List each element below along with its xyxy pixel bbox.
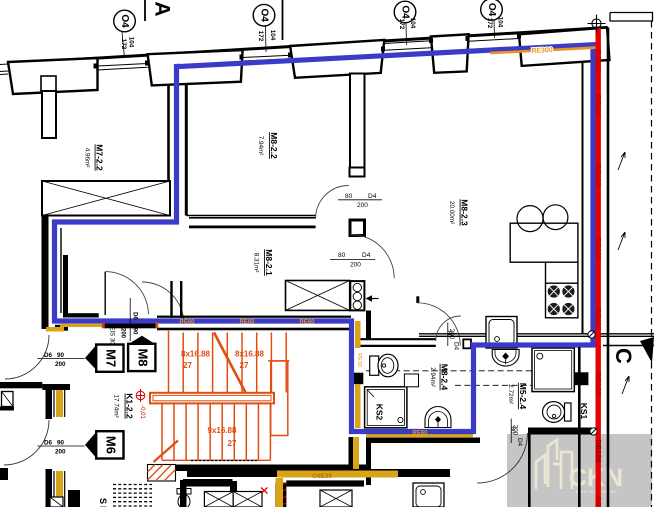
svg-text:172: 172 <box>120 39 127 50</box>
door arc hall to corridor <box>142 282 184 324</box>
svg-text:RE120: RE120 <box>594 238 603 261</box>
svg-text:200: 200 <box>511 425 518 436</box>
bath M8-2.4 north wall <box>355 339 436 346</box>
svg-text:4.96m²: 4.96m² <box>84 148 91 168</box>
bottom wall vertical 3 <box>366 443 371 485</box>
stairs landing bar <box>150 393 274 404</box>
kitchen sink <box>486 317 517 349</box>
svg-text:O4: O4 <box>399 5 410 19</box>
svg-text:200: 200 <box>357 202 368 209</box>
arrow at duct <box>366 295 379 302</box>
left edge wall stub 1 <box>0 407 14 411</box>
svg-text:200: 200 <box>350 262 361 269</box>
apartment marker M7 <box>37 345 123 372</box>
svg-text:172: 172 <box>486 18 493 29</box>
svg-text:KS2: KS2 <box>375 404 385 421</box>
svg-text:RE300: RE300 <box>531 47 553 55</box>
orange RE300 line top <box>490 48 596 54</box>
facade pier P3 <box>290 40 384 78</box>
kitchen counter upper <box>510 223 578 262</box>
plumbing dashed line 1 <box>366 370 532 372</box>
svg-text:27: 27 <box>183 361 192 370</box>
svg-text:K1-2.2: K1-2.2 <box>125 393 135 419</box>
grid bubble O4 no4 <box>481 0 504 38</box>
pier right of KS1 (black) <box>574 372 588 385</box>
bottom sink <box>413 483 444 507</box>
svg-text:RE120: RE120 <box>594 308 603 331</box>
svg-text:M8: M8 <box>135 348 150 366</box>
svg-text:D4: D4 <box>368 193 377 200</box>
crosshair <box>588 15 606 33</box>
facade pier P5 <box>519 28 610 66</box>
boundary dashed line <box>651 21 653 507</box>
kitchen south wall lines <box>419 334 654 337</box>
X-box hall shaft <box>286 281 350 311</box>
kitchen west wall piece <box>366 311 371 340</box>
svg-text:RE60: RE60 <box>299 320 315 326</box>
svg-text:D4: D4 <box>516 438 523 447</box>
sink M5-2.4 <box>492 350 519 367</box>
yellow strip corridor <box>60 324 102 327</box>
svg-text:104: 104 <box>128 37 135 48</box>
bath bottom wall (M8-2.4 / south) <box>366 438 480 444</box>
chimney kitchen wall <box>350 74 365 168</box>
chimney kitchen end cap <box>350 168 365 177</box>
stairs upper diagonal <box>214 333 246 393</box>
shower KS1 <box>532 348 574 392</box>
svg-text:104: 104 <box>269 30 276 41</box>
red RE120 riser line <box>596 28 601 507</box>
svg-text:90: 90 <box>57 440 65 447</box>
grid bubble O4 no1 <box>114 10 136 58</box>
left edge wall stub 2 <box>0 468 8 480</box>
corridor door arc M7 <box>106 272 149 315</box>
svg-text:M7: M7 <box>103 349 118 367</box>
M8 dim leader <box>129 298 131 341</box>
svg-text:20.00m²: 20.00m² <box>448 201 455 224</box>
svg-text:RE120: RE120 <box>594 50 603 73</box>
yellow strip west wall upper <box>56 387 63 417</box>
svg-text:M8-2.3: M8-2.3 <box>460 199 470 226</box>
svg-text:RE120: RE120 <box>594 440 603 463</box>
svg-text:80: 80 <box>338 252 346 259</box>
bottom rooms wall vertical 1 <box>180 480 187 507</box>
door D4 arc hall-kitchen <box>350 235 394 279</box>
svg-text:RE120: RE120 <box>594 95 603 118</box>
toilet M5-2.4 tank <box>565 403 572 421</box>
svg-text:200: 200 <box>55 449 66 456</box>
kitchen counter lower <box>546 262 578 283</box>
svg-text:M7-2.2: M7-2.2 <box>95 144 105 171</box>
svg-text:8x16.88: 8x16.88 <box>181 350 210 359</box>
facade outer wall (sloped) <box>8 28 607 64</box>
stair bottom wall <box>150 465 366 472</box>
red RE120 labels <box>594 50 603 507</box>
svg-text:RE120: RE120 <box>594 373 603 396</box>
label M8-2.1 <box>264 249 274 276</box>
pier P1 niche <box>41 76 56 91</box>
svg-text:200: 200 <box>119 328 125 339</box>
facade pier P4 <box>431 34 469 73</box>
dim D4 80 200 bath2 (rotated) <box>509 419 523 447</box>
bottom apartments north wall <box>187 469 450 477</box>
corridor band top black line <box>157 316 351 318</box>
svg-text:200: 200 <box>55 361 66 368</box>
bath M5-2.4 south wall <box>528 428 600 435</box>
svg-text:172: 172 <box>398 19 405 30</box>
window W2 <box>243 55 290 61</box>
svg-text:D4: D4 <box>453 342 460 351</box>
corridor wall left of stairs <box>172 281 182 318</box>
plumbing dashed line 2 <box>455 384 532 386</box>
west wall of corridor (solid) <box>42 216 49 330</box>
window W1 <box>98 64 148 71</box>
toilet M5-2.4 bowl <box>543 402 565 423</box>
arrow right 1 <box>618 152 625 170</box>
door D4 arc M8-2.2 <box>316 186 349 219</box>
wall piece left-mid <box>42 384 70 390</box>
window W4 <box>469 39 519 42</box>
stairs upper treads <box>169 331 287 393</box>
stairwell east wall pier (black) <box>352 373 364 385</box>
orange hatched box at stair wall <box>148 465 176 482</box>
svg-text:EIS 30: EIS 30 <box>109 326 115 345</box>
corridor band lower wall left <box>55 325 68 331</box>
wall M7 room west <box>63 255 68 314</box>
svg-text:-0,01: -0,01 <box>139 405 145 419</box>
label M8-2.2 <box>269 132 279 159</box>
yellow jamb left corridor <box>46 327 64 332</box>
svg-text:RE120: RE120 <box>594 164 603 187</box>
window jamb blocks <box>94 34 522 69</box>
svg-text:O4: O4 <box>119 14 130 28</box>
svg-text:RE30: RE30 <box>356 353 362 367</box>
wall stub bottom <box>68 490 80 507</box>
partition M7/M8 right face <box>185 83 188 216</box>
svg-text:90: 90 <box>57 352 65 359</box>
label M8-2.4 <box>440 364 450 391</box>
arrow right 2 <box>618 232 625 250</box>
yellow strip stair east lower <box>353 437 359 470</box>
yellow route down <box>276 478 284 507</box>
svg-text:8x16.88: 8x16.88 <box>235 350 264 359</box>
shower KS2 <box>365 387 407 428</box>
svg-text:27: 27 <box>228 439 237 448</box>
window far-left <box>0 64 8 75</box>
svg-text:D4: D4 <box>362 252 371 259</box>
svg-text:C: C <box>611 348 636 364</box>
wall face lines at yellow lower <box>54 471 65 507</box>
label M8-2.3 <box>460 199 470 226</box>
tiny text dash line <box>191 460 257 462</box>
grid bubble O4 no3 <box>394 1 416 45</box>
svg-text:RE60: RE60 <box>412 431 428 437</box>
svg-text:200: 200 <box>448 329 455 340</box>
apartment marker M6 <box>37 431 123 458</box>
svg-text:7.94m²: 7.94m² <box>257 136 264 156</box>
bottom toilet <box>177 489 191 507</box>
hob with burners <box>546 283 578 318</box>
blue fire route loop <box>55 45 594 432</box>
washing machine box <box>404 374 418 387</box>
svg-text:M8-2.1: M8-2.1 <box>264 249 274 276</box>
svg-text:O4: O4 <box>258 9 269 23</box>
svg-text:2.72m²: 2.72m² <box>507 384 514 404</box>
door arc M7 entrance <box>5 335 49 379</box>
svg-text:104: 104 <box>497 17 504 28</box>
neighbour building outline <box>610 13 653 22</box>
svg-text:RE60: RE60 <box>179 320 195 326</box>
arrow right 3 <box>622 376 629 394</box>
svg-text:80: 80 <box>345 193 353 200</box>
stairs lower treads <box>162 404 270 460</box>
svg-text:M5-2.4: M5-2.4 <box>518 383 528 410</box>
wall M7 room south <box>63 313 99 317</box>
corridor band lower wall mid <box>104 322 157 328</box>
bottom X square 1 <box>204 492 233 507</box>
label K1-2.2 <box>125 393 135 419</box>
svg-text:D6: D6 <box>44 440 53 447</box>
bottom wall right vertical2 <box>528 434 531 507</box>
bottom rooms wall north band2a <box>183 479 233 487</box>
bath M8-2.4 door arc <box>436 316 461 341</box>
dim 80 D4 200 upper <box>338 193 382 209</box>
bottom wall horizontal <box>286 480 364 486</box>
grid line A <box>144 0 146 21</box>
M8-2.2 south wall upper line <box>186 216 315 218</box>
stairs lower diagonal <box>154 441 179 463</box>
partition M7/M8 left face <box>167 85 170 214</box>
apartment marker M8 <box>128 336 155 371</box>
bottom small wall piece <box>230 481 237 496</box>
svg-text:M6: M6 <box>103 436 118 454</box>
bath door jamb block <box>463 339 471 348</box>
stairs railing line <box>268 360 289 362</box>
yellow route horizontal <box>277 471 398 478</box>
watermark CKN logo <box>536 440 572 489</box>
M8-2.2 south wall lower line <box>189 226 316 229</box>
duct with circles <box>350 281 364 310</box>
yellow strip stair east upper <box>355 321 361 348</box>
penetration symbol 2 <box>590 428 597 435</box>
corridor band lower black line right <box>157 328 351 331</box>
svg-text:M8-2.4: M8-2.4 <box>440 364 450 391</box>
section triangle <box>640 337 654 363</box>
wall face lines at yellow upper <box>54 387 65 417</box>
counter circles <box>517 206 543 232</box>
svg-text:RE60: RE60 <box>239 320 255 326</box>
level marker <box>136 389 145 402</box>
yellow strip west wall lower <box>56 471 63 502</box>
svg-text:17.74m²: 17.74m² <box>113 394 120 417</box>
svg-text:O4: O4 <box>486 3 497 17</box>
hatched square bottom <box>50 497 63 507</box>
label M7-2.2 <box>95 144 105 171</box>
dim D4 80 200 bath1 (rotated) <box>446 323 460 351</box>
section line right <box>603 345 654 347</box>
stairs lower bottom line <box>162 459 270 461</box>
svg-text:D6: D6 <box>132 312 138 320</box>
door arc M5-2.4 <box>478 433 528 483</box>
window W3 <box>384 41 431 50</box>
east inner wall (kitchen) <box>582 62 584 334</box>
facade pier P2 <box>148 50 243 85</box>
dim 80 D4 200 lower <box>330 252 375 269</box>
svg-text:172: 172 <box>257 31 264 42</box>
kitchen door wall <box>416 296 419 303</box>
wall below stair corner <box>349 437 354 470</box>
bottom X square 3 <box>320 490 352 507</box>
yellow strip stair east mid <box>355 384 361 428</box>
sink M8-2.4 <box>425 407 451 428</box>
svg-text:8.31m²: 8.31m² <box>253 253 260 273</box>
svg-text:27: 27 <box>240 361 249 370</box>
svg-text:M8-2.2: M8-2.2 <box>269 132 279 159</box>
wall vertical left of stairs upper <box>46 390 53 419</box>
svg-text:O9E30: O9E30 <box>312 473 333 480</box>
pier P1 chimney <box>42 91 56 138</box>
toilet M8-2.4 tank <box>370 356 379 375</box>
wardrobe X-box M7 <box>42 181 170 216</box>
kitchen door arc <box>417 303 460 346</box>
red jamb mark corridor 2 <box>156 322 159 328</box>
wall bottom-left horizontal <box>0 382 42 388</box>
grid bubble O4 no2 <box>253 4 276 52</box>
yellow route under blue bottom <box>366 434 473 437</box>
red x mark <box>261 488 268 494</box>
wall pier cap hall <box>350 220 365 236</box>
corridor inner face line <box>60 228 62 313</box>
M8 door dim cluster rotated <box>109 312 138 345</box>
bottom walls right of bath <box>578 347 581 507</box>
door arc M6 entrance <box>4 420 49 465</box>
facade pier P1 <box>8 58 98 94</box>
svg-text:2.94m²: 2.94m² <box>429 367 436 387</box>
svg-text:A: A <box>150 1 173 16</box>
corridor door leaf M7 <box>104 272 106 315</box>
red jamb mark corridor <box>102 323 105 329</box>
stairs railing rect <box>271 361 288 436</box>
watermark gray box <box>507 434 652 507</box>
svg-text:90: 90 <box>132 328 138 335</box>
grid line 2 <box>282 0 284 40</box>
bottom X square 2 <box>233 492 262 507</box>
wall vertical left of stairs lower <box>46 469 53 507</box>
hatched square left <box>2 392 14 407</box>
svg-text:9x16.88: 9x16.88 <box>208 426 237 435</box>
svg-text:S: S <box>98 498 108 504</box>
east outer wall <box>607 28 610 507</box>
penetration symbol 1 <box>588 331 595 338</box>
bottom wall vertical 2 with red hatch <box>275 483 286 507</box>
hatch dash rows <box>113 485 152 507</box>
label M5-2.4 <box>518 383 528 410</box>
toilet M8-2.4 bowl <box>378 354 398 377</box>
svg-text:104: 104 <box>409 18 416 29</box>
svg-text:RE120: RE120 <box>594 497 603 507</box>
